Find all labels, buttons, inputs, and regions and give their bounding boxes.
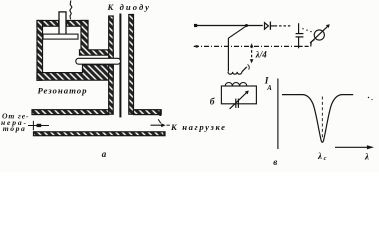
- svg-text:К нагрузке: К нагрузке: [170, 122, 225, 132]
- svg-text:λ: λ: [317, 151, 322, 161]
- svg-text:А: А: [266, 85, 272, 92]
- svg-text:а: а: [102, 149, 107, 159]
- svg-text:в: в: [273, 157, 277, 167]
- svg-text:Резонатор: Резонатор: [38, 86, 88, 96]
- svg-text:К диоду: К диоду: [107, 2, 150, 12]
- svg-text:λ: λ: [364, 151, 369, 161]
- svg-text:б: б: [210, 97, 216, 108]
- svg-text:λ/4: λ/4: [255, 50, 267, 60]
- svg-text:тора: тора: [3, 124, 25, 133]
- svg-text:с: с: [324, 155, 327, 162]
